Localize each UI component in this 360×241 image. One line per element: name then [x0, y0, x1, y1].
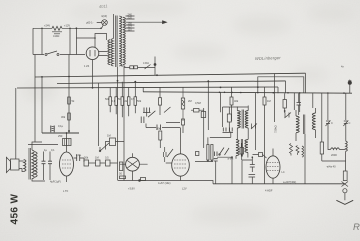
wire antenna lead down	[345, 93, 347, 120]
wire drop x117 x124 long	[118, 67, 125, 181]
resistor R13	[159, 98, 162, 105]
wire middle column	[208, 92, 221, 144]
wire corner B3 end	[277, 87, 279, 93]
capacitor C2 near tube	[42, 161, 46, 164]
output transformer leads	[32, 142, 45, 181]
resistor R28 zigzag	[296, 146, 299, 155]
capacitor C12	[297, 103, 302, 106]
svg-text:0,5: 0,5	[131, 97, 135, 101]
svg-text:0,1: 0,1	[112, 99, 116, 103]
wire x98.5 down	[98, 83, 100, 146]
transformer secondary taps	[126, 16, 135, 31]
IF transformer IFT1b core	[241, 139, 242, 157]
resistor column R11	[121, 97, 124, 106]
svg-text:R: R	[353, 222, 360, 233]
svg-text:1M: 1M	[95, 156, 99, 160]
resistor R1 (mains dropper)	[52, 26, 62, 30]
switch S4	[167, 149, 173, 157]
switch S7 on heater	[145, 65, 151, 70]
resistor R18	[263, 97, 266, 105]
tube V3 (triode)	[126, 157, 140, 171]
wire x322	[321, 93, 323, 142]
IF transformer IFT1b left winding	[236, 140, 239, 156]
resistor R25	[240, 148, 244, 155]
junction dots buses	[92, 87, 94, 89]
output transformer T2 winding	[32, 150, 34, 179]
svg-text:L TF: L TF	[63, 189, 69, 193]
resistor column R10	[115, 97, 118, 106]
svg-text:0,5M: 0,5M	[195, 101, 201, 105]
IF transformer IFT2 left winding	[296, 116, 299, 133]
power transformer T1 primary layer2	[108, 40, 110, 65]
node dot rail	[139, 180, 141, 182]
capacitor C14	[344, 121, 348, 124]
wire under switches	[195, 157, 232, 184]
node dots mains	[41, 28, 43, 30]
svg-text:+24V: +24V	[44, 24, 50, 28]
bus B2	[57, 81, 286, 84]
svg-text:WDLinberger: WDLinberger	[255, 55, 281, 61]
svg-text:n(10): n(10)	[101, 14, 107, 18]
resistor R4 above V2	[63, 139, 72, 146]
wire V4 left grid	[166, 162, 172, 164]
resistor R31	[201, 112, 206, 118]
wire corner B2 end	[285, 81, 287, 93]
resistor R8 box	[110, 138, 116, 146]
IF transformer IFT2 core	[303, 115, 304, 135]
bus B4 (heater)	[143, 92, 352, 93]
resistor column R9	[109, 97, 112, 106]
wire bottom junction right	[322, 161, 346, 171]
IFT1 leads	[237, 106, 248, 140]
wire rail step	[205, 181, 213, 184]
wire rectifier anode bridge	[95, 34, 107, 48]
resistor R27 zigzag	[290, 144, 293, 156]
wire S2 up	[99, 147, 101, 151]
switch S3 diag	[148, 111, 155, 117]
svg-text:0,1µ: 0,1µ	[76, 153, 82, 157]
svg-text:4+67 (14k): 4+67 (14k)	[158, 181, 171, 185]
resistor R30 long	[211, 145, 213, 161]
svg-text:30k: 30k	[156, 127, 161, 131]
wire left drop x35	[34, 55, 36, 143]
resistor R14 above V4	[159, 131, 162, 140]
capacitor C1 left	[42, 126, 79, 134]
wire B3 jog	[142, 87, 144, 91]
capacitor C16 between rails	[119, 162, 122, 171]
small component left of V3	[120, 176, 126, 179]
svg-text:1M: 1M	[267, 99, 271, 103]
wires column drops	[110, 82, 135, 118]
svg-text:30k: 30k	[61, 115, 66, 119]
speaker voice-coil winding	[24, 160, 26, 172]
switch S1 (mains)	[33, 54, 85, 56]
svg-text:2000: 2000	[331, 153, 337, 157]
wire speaker to winding	[19, 161, 24, 172]
svg-text:C: C	[331, 121, 333, 125]
output transformer T2 core	[29, 148, 30, 180]
switch S2	[100, 143, 109, 151]
IFT1b leads	[236, 153, 248, 159]
switch S6 diag	[225, 148, 230, 155]
svg-text:40k: 40k	[234, 99, 239, 103]
svg-text:0,1µ: 0,1µ	[58, 124, 64, 128]
output tube V2	[60, 152, 74, 176]
capacitor cluster C5	[144, 108, 149, 113]
resistor R6 row	[96, 160, 101, 166]
oscillator coil L3	[331, 148, 340, 150]
svg-text:110: 110	[128, 28, 133, 32]
tube V5 (output AF)	[266, 156, 280, 178]
IFT2 leads	[296, 108, 316, 141]
wire heater taps bottom	[121, 66, 130, 68]
wire corner right nest	[258, 77, 304, 93]
trimmer T5	[251, 124, 257, 130]
power transformer T1 primary	[111, 39, 113, 67]
capacitor C3	[48, 161, 52, 164]
resistor R17	[230, 97, 233, 105]
output transformer T2 winding layer2	[35, 152, 37, 178]
svg-text:250: 250	[58, 134, 63, 138]
speaker LS	[11, 159, 20, 170]
wire HT arrow	[126, 21, 166, 23]
svg-text:4 HDF: 4 HDF	[265, 189, 273, 193]
resistor R16 horizontal	[194, 109, 200, 113]
wire rectifier heater to winding	[99, 52, 108, 56]
trimmer T2	[285, 113, 292, 119]
wire y144.5 left	[28, 144, 58, 146]
capacitor C8	[230, 128, 233, 132]
resistor column R12	[127, 97, 130, 106]
power transformer T1 secondary layer2	[123, 17, 126, 64]
resistor R3 on x69 lower	[68, 113, 71, 120]
svg-text:4 Rtc: 4 Rtc	[143, 61, 150, 65]
svg-text:2M: 2M	[188, 99, 192, 103]
svg-text:220: 220	[128, 16, 133, 20]
svg-text:1µ: 1µ	[44, 148, 47, 152]
wire left drop x17	[15, 88, 17, 159]
svg-text:C: C	[349, 121, 351, 125]
node dots on heater bus	[219, 92, 345, 94]
wire long x255	[255, 93, 257, 150]
wire right area verticals	[274, 73, 312, 122]
component group mid	[146, 123, 180, 128]
capacitor C9b	[214, 159, 218, 161]
resistor column R12b	[134, 97, 137, 106]
fuse lamp earth	[343, 189, 347, 193]
svg-text:-a/4a 40: -a/4a 40	[326, 165, 336, 169]
IF transformer IFT1 core	[242, 110, 243, 129]
IF transformer IFT1a left winding	[237, 111, 240, 129]
wire drop x69	[68, 55, 70, 134]
wire anode left	[76, 37, 95, 39]
resistor R21 earth	[343, 171, 347, 181]
fuse F1	[130, 66, 134, 69]
switch S3b diag	[164, 107, 171, 113]
svg-text:410Ω: 410Ω	[53, 34, 59, 38]
svg-text:a+40?(40k): a+40?(40k)	[283, 180, 296, 184]
resistor R15	[181, 98, 184, 109]
wire x327.9 antenna branch	[327, 93, 329, 120]
capacitor C4 row	[77, 155, 80, 162]
svg-text:a-Mx: a-Mx	[228, 157, 234, 161]
node dots B2 B3	[207, 80, 209, 82]
resistor R2 on x69	[68, 97, 71, 104]
wire mains verticals	[33, 28, 76, 54]
svg-text:L2V: L2V	[182, 187, 187, 191]
resistor R24	[196, 152, 199, 156]
bottom rail left	[118, 180, 205, 182]
capacitor C10	[250, 165, 255, 168]
coil L2 below IFT2	[302, 146, 304, 157]
svg-text:0,1: 0,1	[51, 148, 55, 152]
spark gap	[342, 182, 349, 187]
capacitor C7	[223, 128, 226, 132]
capacitor C9	[214, 152, 217, 157]
wire left drop x42	[41, 77, 43, 133]
antenna terminal	[348, 81, 351, 84]
wire corner B1 end	[305, 73, 307, 93]
IF transformer IFT2 right winding	[312, 113, 315, 130]
resistor R5 row	[84, 160, 89, 166]
bottom rail right	[213, 183, 345, 185]
resistor R20	[320, 142, 323, 154]
rectifier tube V1	[86, 47, 99, 60]
resistor R23 cluster	[227, 114, 231, 122]
resistor R22 small box	[182, 119, 185, 125]
wire mains top	[33, 27, 101, 29]
capacitor C6	[164, 147, 167, 162]
transformer primary leads	[112, 14, 114, 39]
wire x208 drop	[207, 81, 209, 130]
bus B3	[17, 87, 278, 88]
node dot C1 junction	[68, 130, 70, 132]
svg-text:+12V: +12V	[64, 24, 70, 28]
right column resistor R19	[283, 100, 286, 109]
capacitor C5b	[141, 117, 144, 124]
earth symbol	[336, 200, 353, 204]
svg-text:456 W: 456 W	[10, 193, 21, 224]
capacitor C13	[326, 121, 330, 124]
small box on rail	[141, 178, 146, 181]
switch S5 diag	[219, 148, 224, 156]
svg-text:0,5: 0,5	[105, 156, 109, 160]
bus B1 (HT+)	[35, 73, 306, 77]
capacitor C15 coupling	[157, 125, 161, 131]
svg-text:50k: 50k	[105, 97, 110, 101]
power transformer T1 secondary	[119, 16, 122, 66]
power transformer T1 core	[116, 16, 117, 68]
dial lamp LP1	[102, 20, 108, 26]
wire cluster top	[204, 107, 249, 148]
svg-text:4011: 4011	[99, 3, 108, 9]
IF transformer IFT1b right winding	[245, 140, 248, 153]
resistor R26 grid stopper	[259, 153, 263, 157]
capacitor C11	[249, 175, 256, 178]
wire V2 top junction	[66, 132, 68, 134]
svg-text:50k: 50k	[84, 156, 89, 160]
wire rectifier cathode down	[92, 60, 94, 89]
antenna coil L4	[346, 141, 348, 151]
tube V4 (pentode)	[172, 154, 190, 176]
svg-text:+3,8V: +3,8V	[128, 187, 135, 191]
svg-text:µ60 1-: µ60 1-	[86, 21, 94, 25]
resistor R29 long	[207, 145, 209, 161]
svg-text:1M: 1M	[107, 134, 111, 138]
svg-text:50k: 50k	[137, 99, 142, 103]
svg-text:4µF(1µF): 4µF(1µF)	[50, 180, 61, 184]
wire IFT2 center down	[304, 134, 306, 184]
IF transformer IFT1a right winding	[245, 111, 248, 129]
resistor R7 row	[106, 160, 111, 166]
svg-text:750kΩ: 750kΩ	[274, 125, 278, 133]
svg-text:1 Z4: 1 Z4	[84, 64, 90, 68]
